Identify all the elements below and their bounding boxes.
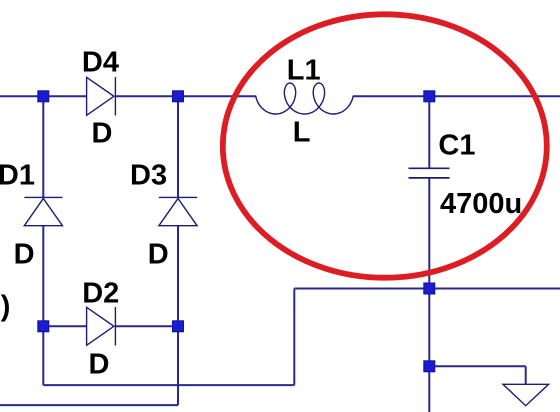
svg-text:D: D (14, 238, 35, 270)
inductor L1 (256, 83, 354, 114)
svg-text:D: D (89, 348, 110, 380)
svg-text:4700u: 4700u (440, 188, 522, 220)
wire right rail lower (C1 bottom plate through nodes to bottom edge) (428, 178, 430, 412)
node N2 (173, 91, 184, 102)
wire D2 row left (node to D2 anode) (43, 325, 86, 327)
node N5 (173, 321, 184, 332)
capacitor C1 (409, 168, 450, 178)
svg-text:D1: D1 (0, 159, 35, 191)
wire top rail middle segment (D4 cathode through node to L1) (115, 95, 256, 97)
wire bottom return horizontal (43, 384, 294, 386)
svg-text:D4: D4 (82, 47, 119, 79)
wire return riser vertical (293, 289, 295, 386)
wire bottom bus to left edge (0, 404, 178, 406)
wire top rail right segment (L1 to right edge through node) (353, 95, 560, 97)
svg-text:L1: L1 (287, 54, 321, 86)
node N1 (38, 91, 49, 102)
diode D2 (87, 307, 116, 346)
diode D4 (87, 77, 116, 116)
node N6 (424, 283, 435, 294)
svg-text:): ) (1, 290, 11, 322)
wire right rail upper (node to C1 top plate) (428, 96, 430, 168)
svg-text:D: D (148, 238, 169, 270)
wire mid rail upper (node to D3 cathode) (177, 96, 179, 197)
wire mid rail lower (D3 anode through D2 node down to bottom bus) (177, 226, 179, 405)
diode D1 (24, 197, 62, 225)
svg-text:L: L (293, 116, 311, 148)
wire left rail upper (node to D1 cathode) (42, 96, 44, 197)
wire ground stub vertical (525, 366, 527, 384)
svg-text:D: D (92, 117, 113, 149)
svg-text:D2: D2 (82, 278, 119, 310)
ground (503, 384, 549, 405)
highlight ellipse around L1 and C1 (223, 14, 547, 277)
svg-text:D3: D3 (130, 159, 167, 191)
wire output lower rail (riser to right edge through node) (294, 288, 560, 290)
svg-text:C1: C1 (438, 130, 475, 162)
wire D2 row right (D2 cathode to node) (115, 325, 178, 327)
node N3 (424, 91, 435, 102)
wire ground stub horizontal (429, 365, 525, 367)
diode D3 (159, 197, 197, 225)
node N4 (38, 321, 49, 332)
wire top rail left segment (input to D4 anode) (0, 95, 87, 97)
wire left rail lower (D1 anode to bottom corner) (42, 226, 44, 385)
node N7 (424, 361, 435, 372)
